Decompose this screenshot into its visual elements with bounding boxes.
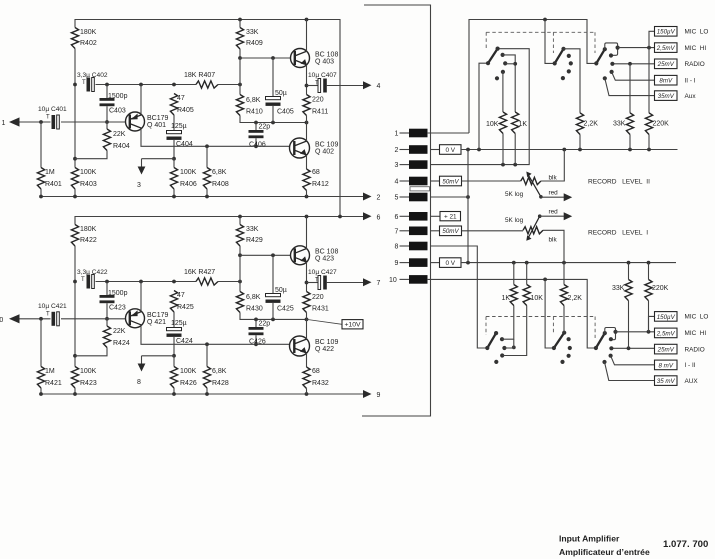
svg-text:6,8K: 6,8K [246,294,261,301]
node rail R408 [205,195,209,199]
node 0V link bottom [466,261,470,265]
svg-text:4: 4 [395,179,399,186]
wire S1 dash [485,32,487,49]
label 35mV box II [655,91,678,101]
label MIC LO I [685,314,709,321]
svg-text:220: 220 [312,97,324,104]
wire ground rail bottom amp [40,393,364,395]
resistor R422 [71,225,96,247]
svg-text:red: red [549,209,559,216]
svg-text:R406: R406 [180,181,197,188]
svg-text:0 V: 0 V [445,147,455,154]
svg-text:100K: 100K [80,368,97,375]
label RADIO II [685,61,705,68]
svg-text:10µ C427: 10µ C427 [308,269,337,276]
svg-text:50mV: 50mV [442,228,459,235]
resistor R408 [203,146,228,196]
svg-text:II - I: II - I [685,78,696,85]
node S1 c2 [501,53,505,57]
node rail R406 [172,195,176,199]
svg-text:22p: 22p [259,124,271,131]
wire pin1 feed rail [469,20,596,134]
node R411 bottom [305,121,309,125]
node rail R428 [205,392,209,396]
svg-text:R423: R423 [80,380,97,387]
wire Q402 collector [306,123,308,142]
svg-text:2: 2 [395,147,399,154]
svg-text:MIC LO: MIC LO [685,314,709,321]
pin 10 [389,275,428,284]
svg-text:R426: R426 [180,380,197,387]
svg-text:8: 8 [137,379,141,386]
node 0V 1K lower [512,261,516,265]
arrow 9 [363,390,381,399]
node S2 c3 [569,61,573,65]
label MIC HI I [685,330,707,337]
node 220K bottom tap [647,330,651,334]
wire MIC LO II [649,31,655,47]
wire pot2 blk [543,230,564,262]
svg-text:AUX: AUX [685,378,699,385]
wire pin4 to 50mV box [431,180,440,182]
node C423 top [105,280,109,284]
svg-text:2: 2 [377,195,381,202]
svg-text:Q 421: Q 421 [147,319,166,326]
node R401 top [39,120,43,124]
node C405 top [271,56,275,60]
svg-text:C425: C425 [277,306,294,313]
svg-text:4: 4 [377,83,381,90]
wire pin4 to pot1 [462,180,521,182]
resistor R402 [71,28,96,49]
svg-text:C403: C403 [109,108,126,115]
node S2 c2 [567,54,571,58]
svg-text:7: 7 [395,228,399,235]
wire Q422 emitter [306,353,308,367]
svg-text:6,8K: 6,8K [246,97,261,104]
svg-text:R429: R429 [246,237,263,244]
svg-text:180K: 180K [80,29,97,36]
arrow 6 [363,212,381,221]
label 0V box pin2 [440,145,462,155]
wire 0V rail II [461,149,678,151]
node base Q421 [105,317,109,321]
node S1 c3 [503,61,507,65]
wire pot2 wiper [526,214,541,240]
wire S1 c4 to 10K [502,72,504,112]
node R421 top [39,317,43,321]
wire S1 c2 to 1K [503,55,516,112]
label MIC HI II [685,45,707,52]
svg-text:9: 9 [377,392,381,399]
arrow 8 [137,356,145,386]
svg-text:1: 1 [2,120,6,127]
wire S3L bridge [605,328,616,340]
wire S3 bridge [605,43,618,55]
svg-text:33K: 33K [246,29,259,36]
resistor 220K lower [645,263,669,332]
svg-text:1K: 1K [519,121,528,128]
resistor R421 [37,319,61,394]
svg-text:T: T [315,278,319,284]
svg-text:3,3µ C402: 3,3µ C402 [77,72,108,79]
resistor R411 [303,95,328,123]
svg-text:180K: 180K [80,226,97,233]
node 220K top tap [647,46,651,50]
svg-text:RADIO: RADIO [685,346,705,353]
wire S1L dash [485,317,487,336]
svg-text:1.077. 700: 1.077. 700 [663,539,708,550]
node 0V pot1 blk [562,148,566,152]
wire input 1 [20,121,51,123]
resistor 10K lower [523,263,543,306]
svg-text:T: T [46,115,50,121]
svg-text:red: red [549,190,559,197]
node feed sw2 [543,18,547,22]
wire S2 dash [552,32,554,53]
svg-text:Q 402: Q 402 [315,149,334,156]
svg-text:BC 108: BC 108 [315,249,338,256]
svg-text:C423: C423 [109,305,126,312]
svg-text:3: 3 [137,182,141,189]
wire Q403 collector [306,20,308,52]
svg-text:Q 403: Q 403 [315,59,334,66]
label blk II [549,175,558,182]
wire S1L c3 link [504,339,513,348]
svg-text:25mV: 25mV [657,347,675,354]
node S1L c5 [494,360,498,364]
wire output 7 [326,282,363,284]
svg-text:R432: R432 [312,380,329,387]
node C426 bottom [254,342,258,346]
resistor 1K upper [512,112,528,165]
node A2 [73,280,77,284]
svg-text:10: 10 [0,317,3,324]
resistor 1K lower [502,263,518,306]
svg-text:22p: 22p [259,321,271,328]
svg-text:220: 220 [312,294,324,301]
svg-text:R408: R408 [212,181,229,188]
node rail supply link [338,215,342,219]
svg-text:220K: 220K [652,285,669,292]
label 5K log II [505,191,524,198]
svg-text:47: 47 [177,95,185,102]
capacitor C404 [167,115,193,159]
svg-text:1M: 1M [45,368,55,375]
pin 2 [395,145,428,154]
svg-text:R422: R422 [80,237,97,244]
node rail R426 [172,392,176,396]
label 50mV box pin4 [440,176,462,186]
resistor 33K upper [613,64,634,150]
capacitor C402 [77,72,108,92]
transistor Q401 [126,112,169,131]
svg-text:blk: blk [549,237,558,244]
svg-text:10K: 10K [531,295,544,302]
svg-text:125µ: 125µ [171,320,187,327]
svg-text:T: T [81,277,85,283]
node S2L c2 [567,337,571,341]
svg-text:R425: R425 [177,304,194,311]
svg-text:6: 6 [395,214,399,221]
label RECORD LEVEL I [588,230,648,237]
node rail R421 [39,392,43,396]
node Q421 emitter top [139,280,143,284]
wire Q423 collector [306,217,308,249]
arrow red II [549,190,573,202]
wire to pin8 stub [142,355,175,357]
label AUX I [685,378,699,385]
svg-text:68: 68 [312,368,320,375]
label title french [559,547,650,557]
resistor 2.2K lower [560,263,582,306]
node S2L c5 [560,360,564,364]
svg-text:150µV: 150µV [657,29,676,36]
svg-text:R410: R410 [246,109,263,116]
node R425 top [172,280,176,284]
svg-text:C404: C404 [176,141,193,148]
node 0V 33K lower [627,261,631,265]
svg-text:1: 1 [395,131,399,138]
wire Q403 emitter [306,65,308,95]
wire Q423 emitter [306,262,308,292]
resistor R401 [37,122,61,197]
wire ganging dashes I [486,316,595,318]
wire II-I tap [612,72,655,80]
capacitor C407 [307,72,338,93]
node S3L bridge out [613,330,617,334]
node C427 left [305,281,309,285]
svg-text:MIC LO: MIC LO [685,29,709,36]
node S2 c5 [561,76,565,80]
node R408 top [205,144,209,148]
svg-text:C406: C406 [249,142,266,149]
wire AUX tap I [605,362,655,381]
svg-text:1500p: 1500p [108,290,128,297]
svg-text:0 V: 0 V [445,260,455,267]
resistor R428 [203,344,228,394]
node 0V 220K [647,148,651,152]
node 33K bottom tap [627,346,631,350]
svg-text:I - II: I - II [685,362,696,369]
node S1L c1 [494,331,498,335]
transistor Q403 [291,49,339,68]
node S3L c3 [609,346,613,350]
label +21 box pin6 [440,212,461,221]
node S3L c4 [609,354,613,358]
svg-text:33K: 33K [612,285,625,292]
svg-text:2,2K: 2,2K [584,121,599,128]
wire base Q401 [61,121,126,123]
svg-text:R424: R424 [113,340,130,347]
svg-text:Aux: Aux [685,93,697,100]
node pin3 10K [501,163,505,167]
label 25mV box II [655,59,678,69]
node rail R432 [305,392,309,396]
transistor Q423 [291,246,339,265]
svg-text:5: 5 [395,195,399,202]
node pin3 1K [513,163,517,167]
node S2L c1 [562,331,566,335]
wire pin1 to switch feed [427,132,469,134]
svg-text:25mV: 25mV [657,61,675,68]
node rail R412 [305,195,309,199]
svg-text:10µ C401: 10µ C401 [38,106,67,113]
resistor 33K lower [612,263,632,349]
resistor R407 [184,72,218,88]
svg-text:35 mV: 35 mV [657,378,676,385]
wire S3 dash [594,32,596,53]
resistor R403 [71,168,96,197]
resistor R412 [303,169,329,197]
svg-text:33K: 33K [613,121,626,128]
transistor Q422 [290,336,339,356]
capacitor C421 [38,303,67,326]
node S1L c3 [502,346,506,350]
svg-text:6: 6 [377,214,381,221]
svg-text:68: 68 [312,169,320,176]
resistor R405 [170,94,193,116]
wire pin9 to 0V box [431,262,440,264]
svg-text:BC 109: BC 109 [315,142,338,149]
node S3L c2 [609,337,613,341]
wire supply rail top amp [75,20,340,217]
node S1 c1 [496,47,500,51]
resistor R425 [170,291,193,313]
node C407 left [305,84,309,88]
svg-text:T: T [82,80,86,86]
label blk I [549,237,558,244]
potentiometer 5K log I [523,227,543,234]
node S1L c3 junction [512,346,516,350]
node S3L c5 [602,360,606,364]
wire RADIO I [611,347,654,349]
label MIC LO II [685,29,709,36]
wire input 10 [20,318,51,320]
node S1L c2 [500,337,504,341]
wire pin6 stub [431,215,441,217]
svg-text:8mV: 8mV [659,78,673,85]
wire Q401 emitter [140,85,142,115]
node rail R403 [73,195,77,199]
svg-text:+10V: +10V [344,322,361,329]
switch S1 wafer II [486,49,498,66]
svg-text:BC179: BC179 [147,115,169,122]
svg-text:220K: 220K [653,121,670,128]
node S3 c2 [609,53,613,57]
node S2 c1 [561,47,565,51]
resistor R430 [236,255,306,319]
label title english [559,534,620,544]
svg-text:10K: 10K [486,121,499,128]
wire output 4 [326,85,363,87]
wire S2 c1 to 2.2K [564,49,581,113]
svg-text:3,3µ C422: 3,3µ C422 [77,269,108,276]
svg-text:100K: 100K [180,169,197,176]
svg-text:10µ C407: 10µ C407 [308,72,337,79]
wire pin7 to pot2 [462,230,524,232]
svg-text:18K R407: 18K R407 [184,72,215,79]
wire S3L dash [594,317,596,339]
svg-text:9: 9 [395,260,399,267]
wire sw2 lower feed drop [545,279,554,348]
svg-text:2,5mV: 2,5mV [656,330,676,337]
svg-text:Q 422: Q 422 [315,346,334,353]
capacitor C403 [100,85,128,123]
resistor R429 [236,217,262,256]
node S3 c5 [603,76,607,80]
svg-text:150µV: 150µV [657,314,676,321]
capacitor C401 [38,106,67,129]
wire S2L dash [552,317,554,335]
svg-text:T: T [315,81,319,87]
svg-text:Amplificateur d’entrée: Amplificateur d’entrée [559,547,650,557]
wire MIC HI II [618,47,655,49]
wire left bias rail lower [74,246,76,367]
pin 3 [395,160,428,169]
capacitor C423 [100,282,128,319]
label 150uV box II [655,27,678,37]
svg-text:R430: R430 [246,306,263,313]
node R405 top [172,83,176,87]
resistor R432 [303,367,329,394]
label 2.5mV box I [655,328,678,338]
svg-text:8 mV: 8 mV [659,362,674,369]
wire pin2 to 0V box [431,149,440,151]
svg-text:47: 47 [177,292,185,299]
label 5K log I [505,217,524,224]
input arrow 1 [2,117,20,127]
node 0V 10K lower [525,261,529,265]
node Q401 emitter top [139,83,143,87]
switch S2 wafer I [552,333,564,350]
svg-text:RADIO: RADIO [685,61,705,68]
node A [73,83,77,87]
svg-text:1500p: 1500p [108,93,128,100]
node R428 top [205,342,209,346]
switch S3 wafer II [594,49,605,65]
pin 5 [395,193,428,202]
svg-text:125µ: 125µ [171,123,187,130]
svg-text:2,2K: 2,2K [568,295,583,302]
svg-text:R402: R402 [80,40,97,47]
wire RADIO II [612,63,654,65]
svg-text:10: 10 [389,277,397,284]
label 2.5mV box II [655,43,678,53]
svg-text:7: 7 [377,280,381,287]
node 0V link top [466,148,470,152]
wire S2L c1 to 2.2K [563,306,565,333]
resistor 2.2K upper [576,113,598,150]
label 25mV box I [655,344,678,354]
svg-text:Q 423: Q 423 [315,256,334,263]
node S3 c1 [603,47,607,51]
wire 0V rail I [461,262,676,264]
svg-text:2,5mV: 2,5mV [656,45,676,52]
switch S2 wafer II [553,49,564,66]
pin 8 [395,242,428,251]
resistor R404 [75,122,130,159]
node S2 c4 [567,69,571,73]
wire to pin3 stub [142,158,175,160]
resistor R423 [71,367,96,395]
svg-text:BC 109: BC 109 [315,339,338,346]
svg-text:R428: R428 [212,380,229,387]
resistor R426 [170,356,196,394]
node S2L c3 [568,346,572,350]
resistor R409 [236,20,262,59]
svg-text:RECORD LEVEL II: RECORD LEVEL II [588,179,650,186]
